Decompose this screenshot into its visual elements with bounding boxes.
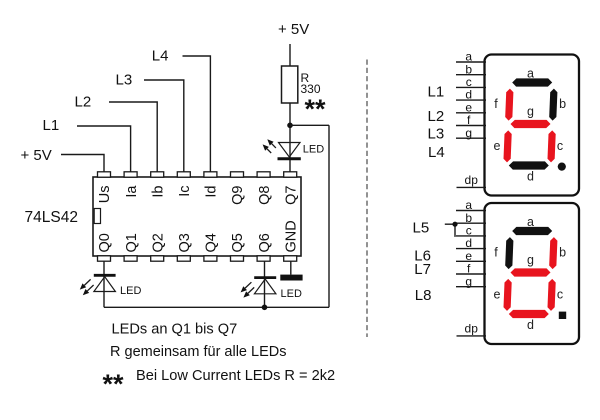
pin Q9 (top)	[231, 172, 244, 177]
wire segment input g DIS2	[456, 286, 486, 288]
svg-text:L5: L5	[413, 220, 430, 237]
svg-text:L1: L1	[43, 117, 60, 134]
7-segment display DIS1 body	[485, 55, 580, 196]
svg-text:f: f	[494, 97, 498, 111]
segment f	[505, 89, 513, 121]
segment d	[509, 161, 549, 169]
LED D2 emission arrow 1	[245, 282, 251, 288]
svg-text:L2: L2	[75, 94, 92, 111]
pin Q7 (top)	[284, 172, 297, 177]
svg-text:Q6: Q6	[257, 233, 273, 252]
wire segment input a DIS1	[456, 61, 486, 63]
segment e	[504, 279, 512, 311]
wire segment input c DIS1	[456, 86, 486, 88]
wire L4 to pin Id	[183, 56, 211, 172]
svg-text:g: g	[465, 126, 472, 140]
svg-text:74LS42: 74LS42	[25, 209, 78, 226]
svg-text:Bei Low Current LEDs R = 2k2: Bei Low Current LEDs R = 2k2	[136, 368, 335, 384]
junction node LED D2 / rail	[262, 305, 268, 311]
svg-text:Ic: Ic	[177, 186, 193, 197]
svg-text:Us: Us	[97, 186, 113, 204]
svg-text:c: c	[557, 287, 563, 301]
svg-text:**: **	[103, 369, 125, 399]
pin Q0 (bottom)	[98, 256, 111, 261]
svg-text:Q3: Q3	[177, 233, 193, 252]
pin Q2 (bottom)	[151, 256, 164, 261]
LED D3 triangle	[279, 143, 301, 158]
svg-text:L4: L4	[428, 144, 445, 161]
svg-text:a: a	[527, 215, 534, 229]
svg-text:g: g	[527, 104, 534, 118]
segment d	[509, 310, 549, 318]
decimal point DIS2	[559, 312, 566, 319]
pin Q5 (bottom)	[231, 256, 244, 261]
segment e	[504, 130, 512, 162]
svg-text:L2: L2	[428, 108, 445, 125]
svg-text:Q5: Q5	[230, 233, 246, 252]
pin Q4 (bottom)	[204, 256, 217, 261]
segment f	[505, 237, 513, 269]
svg-text:Q4: Q4	[204, 233, 220, 252]
wire segment input f DIS1	[456, 125, 486, 127]
svg-text:Q1: Q1	[124, 233, 140, 252]
pin GND (bottom)	[284, 256, 297, 261]
ground symbol	[280, 275, 302, 281]
wire resistor to LED D3 and pin Q7	[289, 103, 291, 172]
svg-text:**: **	[305, 94, 327, 124]
wire pin GND to ground bar	[290, 261, 292, 275]
svg-text:Q2: Q2	[150, 233, 166, 252]
wire segment input a DIS2	[456, 210, 486, 212]
wire +5V to resistor R	[289, 44, 291, 66]
wire segment input d DIS1	[456, 99, 486, 101]
pin Q8 (top)	[257, 172, 270, 177]
svg-text:Id: Id	[204, 186, 220, 198]
LED D1 emission arrow 2	[87, 285, 93, 291]
svg-text:L7: L7	[414, 261, 431, 278]
segment a	[512, 78, 552, 86]
svg-text:R gemeinsam für alle LEDs: R gemeinsam für alle LEDs	[110, 344, 287, 360]
wire segment input g DIS1	[456, 137, 486, 139]
junction node at resistor/LED	[287, 123, 293, 129]
svg-text:L1: L1	[428, 83, 445, 100]
wire right rail vertical	[328, 125, 330, 307]
segment b	[549, 237, 557, 269]
svg-text:L4: L4	[152, 48, 169, 65]
IC U1 74LS42 body	[93, 177, 301, 256]
pin Us (top)	[98, 172, 111, 177]
svg-text:Q9: Q9	[230, 186, 246, 205]
pin Q6 (bottom)	[257, 256, 270, 261]
svg-text:GND: GND	[283, 220, 299, 252]
LED D2 emission arrow 2	[248, 287, 254, 293]
svg-text:LEDs an Q1 bis Q7: LEDs an Q1 bis Q7	[112, 322, 238, 338]
svg-text:L3: L3	[116, 72, 133, 89]
LED D1 triangle	[94, 277, 116, 292]
LED D1 cathode bar	[94, 274, 116, 277]
pin Q1 (bottom)	[124, 256, 137, 261]
wire L1 to pin Ia	[77, 126, 131, 172]
wire pin Q6 to LED D2 and bottom rail	[264, 261, 266, 307]
LED D3 cathode bar	[278, 157, 301, 160]
wire segment input c DIS2	[456, 235, 486, 237]
dashed separator line	[366, 60, 368, 338]
wire pin Q0 to LED D1 and bottom rail	[103, 261, 105, 307]
svg-text:d: d	[527, 318, 534, 332]
junction node L5	[452, 222, 457, 227]
svg-text:dp: dp	[465, 322, 479, 336]
svg-text:+ 5V: + 5V	[21, 147, 52, 164]
wire segment input d DIS2	[456, 248, 486, 250]
svg-text:Q7: Q7	[283, 186, 299, 205]
LED D1 emission arrow 1	[84, 279, 90, 285]
pin Ic (top)	[177, 172, 190, 177]
segment g	[511, 120, 551, 128]
pin Ib (top)	[151, 172, 164, 177]
svg-text:LED: LED	[120, 285, 141, 297]
segment g	[511, 268, 551, 276]
LED D2 triangle	[254, 279, 276, 294]
7-segment display DIS2 body	[485, 203, 580, 344]
segment a	[512, 227, 552, 235]
wire L2 to pin Ib	[109, 102, 157, 172]
wire L3 to pin Ic	[144, 80, 184, 172]
LED D3 emission arrow 1	[272, 144, 276, 148]
wire bottom rail	[104, 306, 329, 308]
wire segment input e DIS2	[456, 260, 486, 262]
wire junction to right rail	[290, 124, 329, 126]
wire segment input dp DIS2	[457, 335, 487, 337]
IC pin-1 notch	[94, 209, 100, 224]
svg-text:Ib: Ib	[150, 186, 166, 198]
svg-text:a: a	[527, 67, 534, 81]
resistor R 330	[282, 66, 298, 103]
svg-text:f: f	[494, 246, 498, 260]
svg-text:c: c	[557, 139, 563, 153]
svg-text:g: g	[527, 253, 534, 267]
svg-text:e: e	[494, 287, 501, 301]
svg-text:Q0: Q0	[97, 233, 113, 252]
svg-text:Q8: Q8	[257, 186, 273, 205]
svg-text:LED: LED	[303, 144, 324, 156]
pin Ia (top)	[124, 172, 137, 177]
svg-text:LED: LED	[281, 288, 302, 300]
svg-text:g: g	[465, 274, 472, 288]
LED D2 cathode bar	[254, 276, 276, 279]
decimal point DIS1	[558, 163, 566, 171]
wire segment input b DIS1	[456, 74, 486, 76]
segment c	[548, 130, 556, 162]
svg-text:b: b	[559, 246, 566, 260]
wire +5V to pin Us	[61, 155, 104, 172]
pin Q3 (bottom)	[177, 256, 190, 261]
svg-text:+ 5V: + 5V	[278, 21, 309, 38]
segment c	[548, 279, 556, 311]
wire segment input f DIS2	[456, 273, 486, 275]
wire segment input b DIS2	[456, 222, 486, 224]
svg-text:dp: dp	[465, 173, 479, 187]
svg-text:Ia: Ia	[124, 185, 140, 198]
svg-text:d: d	[527, 169, 534, 183]
svg-text:b: b	[559, 97, 566, 111]
pin Id (top)	[204, 172, 217, 177]
svg-text:L8: L8	[415, 287, 432, 304]
LED D3 emission arrow 2	[267, 149, 271, 153]
wire segment input e DIS1	[456, 112, 486, 114]
wire L5 to lines b and c	[445, 224, 455, 237]
svg-text:L3: L3	[428, 125, 445, 142]
wire segment input dp DIS1	[457, 186, 487, 188]
svg-text:e: e	[494, 139, 501, 153]
segment b	[549, 89, 557, 121]
